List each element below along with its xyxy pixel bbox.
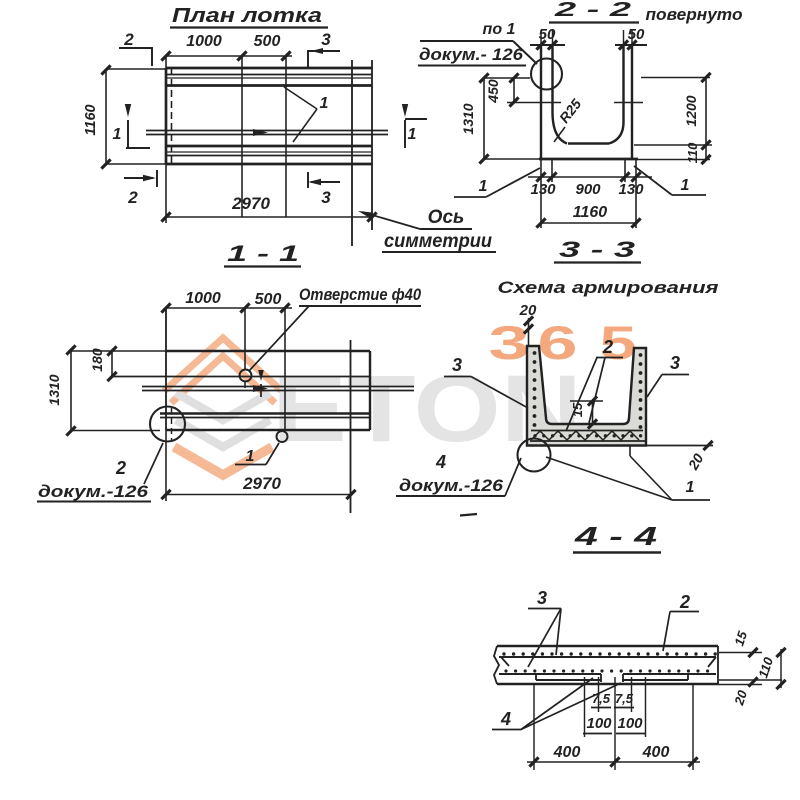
svg-text:7,5: 7,5 — [592, 691, 611, 706]
svg-text:3: 3 — [452, 355, 462, 375]
dim 50 right wall — [619, 26, 645, 50]
label 3 right (3-3) — [647, 353, 689, 397]
svg-text:500: 500 — [254, 33, 281, 50]
label 4 (4-4) — [492, 678, 621, 730]
section 2-2 left wall — [530, 45, 567, 159]
svg-text:450: 450 — [485, 79, 501, 104]
svg-text:6: 6 — [538, 316, 578, 369]
svg-text:130: 130 — [618, 181, 644, 198]
svg-text:1: 1 — [113, 126, 122, 143]
svg-text:400: 400 — [553, 744, 581, 761]
section mark 2 bottom — [124, 170, 157, 207]
svg-text:4: 4 — [435, 452, 446, 472]
svg-text:2970: 2970 — [231, 194, 270, 213]
svg-text:130: 130 — [530, 181, 556, 198]
label 2 докум.-126 (1-1) — [37, 443, 163, 502]
dim 2970 (1-1) — [161, 430, 355, 501]
dim 1000 (1-1) — [161, 290, 292, 430]
svg-text:110: 110 — [685, 142, 700, 163]
svg-text:1: 1 — [320, 95, 329, 112]
slab mesh dots — [533, 434, 642, 437]
svg-text:1: 1 — [408, 126, 417, 143]
svg-text:2 - 2: 2 - 2 — [553, 0, 631, 21]
label 2 (3-3) — [566, 337, 623, 431]
dim 50 left wall — [536, 26, 557, 50]
right wall lap mark — [614, 102, 643, 104]
svg-text:докум.-126: докум.-126 — [399, 476, 504, 495]
rebar dots left wall — [533, 351, 537, 427]
svg-text:500: 500 — [255, 291, 282, 308]
plan wall inner lines bottom — [166, 146, 372, 156]
leader 1 bottom-left (2-2) — [454, 168, 540, 197]
svg-text:1160: 1160 — [573, 204, 608, 221]
svg-text:100: 100 — [586, 715, 612, 732]
baseline extension (3-3) — [630, 441, 713, 456]
section mark 3 top — [308, 30, 340, 68]
slab mesh zigzag — [531, 431, 639, 440]
svg-text:повернуто: повернуто — [646, 5, 743, 24]
svg-text:2: 2 — [602, 337, 613, 357]
svg-text:4 - 4: 4 - 4 — [573, 521, 657, 551]
4-4 top rebar — [499, 657, 716, 667]
dim 110 (4-4 right) — [719, 648, 786, 689]
dim 1000 (plan top) — [161, 33, 292, 68]
dim 130-900-130 (2-2 bottom) — [528, 159, 652, 228]
leader 1 (3-3 bottom right) — [546, 456, 710, 500]
stray mark — [460, 514, 477, 516]
svg-text:100: 100 — [617, 715, 643, 732]
plan vertical extension line x=286 — [285, 56, 287, 217]
label 4 докум.-126 (3-3) — [396, 452, 521, 496]
plan vertical line x=352 — [351, 60, 353, 246]
detail circle on left wall — [531, 59, 562, 90]
1-1 dashed cut segment — [171, 408, 173, 440]
dim 450 — [485, 73, 561, 106]
1-1 vertical line x=350 — [350, 340, 352, 513]
svg-text:1: 1 — [246, 448, 255, 465]
slab mesh lines — [530, 431, 645, 442]
plan centre-line arrow — [253, 129, 268, 136]
title: 3 - 3 — [554, 237, 641, 263]
svg-text:Отверстие ф40: Отверстие ф40 — [299, 285, 421, 304]
svg-text:50: 50 — [628, 26, 645, 43]
title: План лотка — [170, 5, 328, 28]
watermark hexagon logo — [164, 338, 282, 475]
4-4 bottom rebar dots — [504, 669, 709, 672]
svg-text:1: 1 — [479, 178, 488, 195]
dim 1160 (2-2 bottom) — [536, 204, 640, 228]
svg-text:1000: 1000 — [186, 33, 222, 50]
label по 1 — [420, 21, 537, 64]
4-4 bottom rebar with hooks — [499, 674, 716, 682]
dim 180 (1-1 left) — [89, 346, 117, 381]
rebar dots right wall — [639, 353, 643, 429]
label 3 left (3-3) — [444, 355, 528, 408]
svg-text:2: 2 — [679, 592, 690, 612]
label 2 (4-4) — [663, 592, 699, 651]
4-4 top rebar dots — [502, 652, 717, 655]
1-1 lower band lines — [160, 414, 370, 418]
svg-text:3: 3 — [321, 30, 331, 49]
dim 2970 (plan bottom) — [161, 164, 376, 223]
section 2-2 right wall — [609, 45, 647, 159]
small hole on bottom edge — [277, 431, 288, 442]
1-1 centre lines — [142, 387, 414, 391]
svg-text:по 1: по 1 — [483, 21, 516, 38]
svg-text:1160: 1160 — [83, 104, 99, 135]
label R25 — [554, 96, 584, 142]
svg-text:1310: 1310 — [46, 374, 62, 405]
label Ось симметрии — [358, 207, 496, 252]
1-1 outline — [166, 308, 370, 430]
plan outline — [166, 60, 372, 230]
svg-text:3: 3 — [537, 588, 547, 608]
dim 20 (3-3 top) — [519, 302, 537, 346]
dim 1310 (2-2) — [460, 73, 539, 163]
svg-text:900: 900 — [575, 181, 601, 198]
svg-text:4: 4 — [500, 709, 511, 729]
dim 15 (3-3) — [570, 396, 603, 428]
dim 100 100 (4-4) — [583, 677, 646, 737]
svg-text:400: 400 — [642, 744, 670, 761]
svg-text:План лотка: План лотка — [172, 5, 322, 27]
4-4 slab outline — [494, 646, 718, 684]
section mark 3 bottom — [308, 172, 340, 207]
1-1 centre-line arrows — [253, 370, 268, 397]
4-4 lap bars — [536, 674, 688, 680]
svg-text:20: 20 — [519, 302, 537, 319]
svg-text:1000: 1000 — [185, 290, 221, 307]
svg-text:3: 3 — [670, 353, 680, 373]
svg-text:симметрии: симметрии — [384, 231, 492, 252]
title: 4 - 4 — [573, 521, 661, 553]
title: 2 - 2 повернуто — [549, 0, 743, 24]
svg-text:1: 1 — [686, 479, 695, 496]
svg-text:3: 3 — [321, 188, 331, 207]
svg-text:1200: 1200 — [683, 95, 699, 126]
callout 1 inside plan — [284, 87, 329, 142]
section 2-2 bottom slab — [539, 144, 638, 160]
dim 1310 (1-1 left) — [46, 345, 166, 435]
svg-text:2: 2 — [127, 188, 138, 207]
svg-text:1 - 1: 1 - 1 — [227, 241, 299, 266]
svg-text:50: 50 — [539, 26, 556, 43]
svg-text:2970: 2970 — [242, 474, 281, 493]
1-1 inner line y377 — [112, 376, 370, 378]
label Отверстие ф40 — [249, 285, 421, 371]
svg-text:7,5: 7,5 — [615, 691, 634, 706]
leader 1 bottom-right (2-2) — [634, 166, 706, 195]
svg-text:Схема армирования: Схема армирования — [498, 278, 719, 297]
label 3 (4-4) — [528, 588, 561, 667]
svg-text:2: 2 — [115, 458, 126, 478]
svg-text:1: 1 — [681, 177, 690, 194]
label докум.- 126 (2-2) — [418, 45, 526, 66]
plan vertical extension line x=242 — [241, 56, 243, 217]
plan wall inner lines top — [166, 75, 372, 86]
callout circle (1-1 left) — [150, 407, 185, 442]
dim 110 (2-2 right) — [634, 140, 712, 164]
dim 15 (4-4 right) — [719, 629, 762, 657]
plan centre lines — [146, 131, 388, 135]
svg-text:докум.- 126: докум.- 126 — [419, 45, 524, 64]
dim 1200 (2-2 right) — [641, 73, 711, 145]
section mark 1 right — [402, 104, 427, 148]
svg-text:докум.-126: докум.-126 — [38, 482, 149, 501]
leader 1 (1-1 bottom) — [235, 443, 279, 465]
svg-text:3 - 3: 3 - 3 — [559, 237, 635, 262]
dim 1160 (plan left) — [83, 65, 166, 168]
dim 7,5 7,5 (4-4) — [591, 677, 634, 770]
svg-text:1310: 1310 — [460, 103, 476, 134]
svg-text:2: 2 — [123, 30, 134, 49]
section mark 2 top — [119, 30, 152, 66]
dim 400 400 (4-4) — [527, 684, 700, 770]
svg-text:Ось: Ось — [428, 207, 465, 228]
dim 20 (4-4 right) — [718, 677, 762, 707]
callout circle (3-3) — [518, 439, 551, 472]
section mark 1 left — [113, 104, 150, 148]
title: 1 - 1 — [224, 241, 301, 267]
plan section 2-2 cut line (dashed) — [171, 68, 173, 164]
hole ф40 — [240, 370, 252, 382]
U-profile with concrete fill — [527, 346, 646, 446]
